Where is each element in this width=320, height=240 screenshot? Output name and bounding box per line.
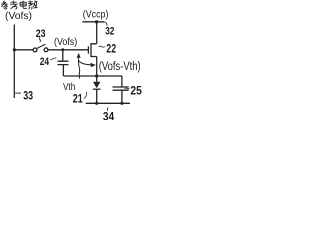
- junction left rail to switch wire: [13, 48, 16, 51]
- wire left rail Vofs: [13, 25, 15, 99]
- leader 21: [84, 92, 87, 99]
- svg-text:(Vofs-Vth): (Vofs-Vth): [99, 59, 141, 73]
- junction capacitor C24 branch: [61, 48, 64, 51]
- power rail Vccp bar: [83, 21, 105, 23]
- junction diode bottom: [95, 102, 98, 105]
- wire rail to switch: [14, 49, 33, 51]
- wire source to node: [96, 57, 98, 77]
- leader 22: [99, 46, 105, 47]
- wire bottom 34: [86, 102, 130, 104]
- svg-text:22: 22: [106, 42, 116, 56]
- wire node horizontal: [63, 75, 122, 77]
- capacitor C25: [121, 76, 123, 87]
- svg-text:(Vccp): (Vccp): [83, 10, 109, 21]
- svg-text:32: 32: [105, 26, 114, 38]
- leader 34: [106, 107, 109, 111]
- svg-text:(Vofs): (Vofs): [54, 37, 77, 48]
- leader 32: [105, 22, 107, 26]
- leader 33: [15, 92, 21, 94]
- svg-text:(Vofs): (Vofs): [5, 11, 32, 22]
- wire 32 drain: [96, 22, 98, 44]
- svg-text:33: 33: [23, 89, 33, 103]
- capacitor C24: [62, 50, 64, 61]
- text 参考电势: [1, 1, 37, 10]
- leader 24: [50, 58, 56, 60]
- switch 23: [33, 48, 37, 52]
- svg-text:25: 25: [130, 84, 141, 98]
- transistor Q22 MOSFET: [87, 46, 89, 53]
- leader 25: [125, 87, 130, 90]
- annotation arrow Vth: [78, 58, 90, 79]
- leader 23: [39, 37, 40, 42]
- wire switch to gate: [48, 49, 88, 51]
- diode D21: [96, 76, 98, 82]
- svg-text:24: 24: [40, 56, 50, 68]
- svg-text:23: 23: [36, 28, 46, 40]
- svg-text:34: 34: [103, 111, 115, 121]
- svg-text:21: 21: [73, 92, 83, 105]
- junction cap25 bottom: [120, 102, 123, 105]
- junction Vccp: [95, 20, 98, 23]
- node junction Vofs-Vth: [95, 74, 98, 77]
